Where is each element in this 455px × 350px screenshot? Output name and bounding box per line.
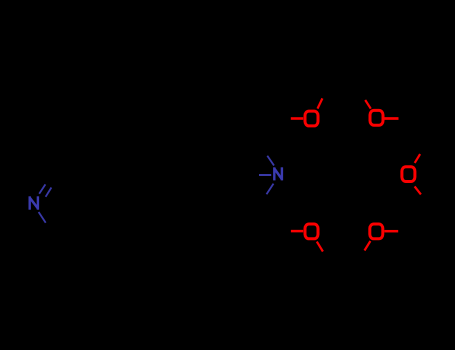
pyridine N-C single bond: [39, 212, 46, 223]
pyridine nitrogen label N (left): [30, 196, 38, 209]
oxygen label O1 (top-left of crown): [305, 111, 318, 126]
crown N-C bond up-left: [267, 156, 274, 166]
O2 C-O bond up-left diagonal: [365, 100, 371, 109]
O1 C-O bond up-right diagonal: [318, 98, 323, 108]
O4 C-O bond right horizontal: [384, 230, 398, 233]
O3 C-O bond up-right diagonal: [415, 154, 420, 163]
pyridine C=N double bond, main line: [39, 184, 45, 193]
O1 C-O bond left horizontal: [291, 117, 303, 120]
O2 C-O bond right horizontal: [384, 117, 398, 120]
O5 C-O bond down-right diagonal: [317, 242, 323, 252]
crown amine nitrogen label N (middle): [274, 167, 282, 180]
pyridine C=N double bond, inner line: [46, 188, 52, 197]
oxygen label O5 (bottom-left of crown): [305, 224, 318, 239]
O3 C-O bond down-right diagonal: [415, 186, 421, 194]
oxygen label O4 (bottom-right of crown): [370, 224, 383, 239]
oxygen label O2 (top-right of crown): [370, 110, 383, 125]
O5 C-O bond left horizontal: [291, 230, 303, 233]
O4 C-O bond down-left diagonal: [365, 241, 371, 251]
crown N-C bond left horizontal: [259, 174, 271, 176]
crown N-C bond down-left: [267, 184, 274, 195]
oxygen label O3 (right of crown): [402, 167, 415, 182]
